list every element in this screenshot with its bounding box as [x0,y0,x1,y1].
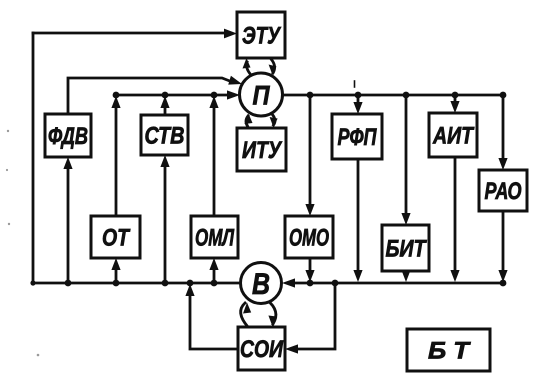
wire drop to RFP [357,95,360,104]
wire bus into P left [116,94,229,97]
wire OML feed from bus [213,267,216,283]
arrowhead FDV line into P [228,76,243,89]
svg-text:РФП: РФП [338,124,378,151]
wire drop to BIT [405,95,408,215]
speck left margin 2 [6,169,8,171]
arrowhead OT top at bus [111,96,120,108]
arrowhead bus into P [227,90,240,99]
svg-text:АИТ: АИТ [432,123,475,150]
svg-text:Б Т: Б Т [428,338,471,365]
arrowhead into OML bottom [209,258,218,270]
wire FDV feed from bus [67,166,70,283]
wire STV feed from bus [164,164,167,283]
box STV [141,115,188,155]
box BT [407,329,490,371]
svg-text:ОМЛ: ОМЛ [195,225,234,252]
junction dot OML top bus [211,92,218,99]
wire arc P to ETU left [247,62,252,75]
wire OT top to bus [115,104,118,216]
arrowhead into FDV bottom [63,157,72,169]
svg-text:СТВ: СТВ [145,123,185,150]
speck left margin 3 [8,223,10,225]
arrowhead SOI return at bus [185,284,194,296]
box AIT [429,113,477,157]
box ITU [237,128,286,171]
wire STV top to bus [164,104,167,115]
arrowhead RAO at bottom bus [498,270,507,282]
arrowhead arc into V bottom [243,303,251,314]
arrowhead into AIT top [450,101,459,113]
box BIT [382,225,429,271]
arrowhead into SOI right [285,344,298,353]
arrowhead arc into SOI top [268,316,276,327]
junction dot RAO corner top bus [500,92,507,99]
arrowhead into OMO top [305,204,314,216]
wire bottom bus left of V [33,282,241,285]
svg-text:СОИ: СОИ [240,336,284,363]
wire left feedback vertical [32,33,35,283]
wire OML top to bus [213,104,216,216]
arrowhead into STV bottom [160,155,169,167]
wire top bus right of P [283,94,503,97]
arrowhead into OT bottom [111,258,120,270]
wire drop to OMO [309,95,312,206]
junction dot OMO bottom bus [307,280,314,287]
wire SOI return to bus [190,294,238,349]
box SOI [238,327,285,370]
arrowhead arc into ITU top [270,117,278,128]
wire drop to RAO [502,95,505,160]
wire BIT bottom to bus [405,271,408,272]
wire arc SOI to V left [241,303,248,327]
arrowhead STV top at bus [160,96,169,108]
arrowhead arc into P bottom [245,114,253,125]
wire left feedback horizontal to ETU [33,32,226,35]
svg-text:ИТУ: ИТУ [242,137,282,164]
wire OMO bottom to bus [309,258,312,272]
junction dot OMO top bus [307,92,314,99]
junction dot STV bottom bus [162,280,169,287]
junction dot FDV bottom bus [65,280,72,287]
svg-text:ФДВ: ФДВ [48,123,88,150]
arrowhead OML top at bus [209,96,218,108]
svg-text:РАО: РАО [485,178,522,205]
circle P [240,73,283,116]
junction dot OT top bus [113,92,120,99]
wire OT feed from bus [115,267,118,283]
wire RFP bottom to bus [357,159,360,272]
wire drop to AIT [454,95,457,103]
wire arc ITU to P left [246,116,248,127]
junction dot RAO end bottom bus [500,280,507,287]
arrowhead into ETU left [224,29,237,39]
svg-text:ЭТУ: ЭТУ [242,23,281,50]
junction dot SOI return bottom bus [187,280,194,287]
circle V [241,263,282,304]
arrowhead OMO at bottom bus [305,270,314,282]
arrowhead into RFP top [353,102,362,114]
wire bus to SOI input [294,283,335,349]
arrowhead arc into ETU bottom [243,58,251,69]
wire RAO bottom to bus [502,211,505,272]
junction dot left line at bottom bus [30,280,35,285]
svg-text:БИТ: БИТ [386,236,428,263]
speck artifact above RFP junction [354,81,356,87]
arrowhead RFP at bottom bus [353,270,362,282]
junction dot SOI feed bottom bus [332,280,339,287]
junction dot OML bottom bus [211,280,218,287]
arrowhead AIT at bottom bus [450,270,459,282]
arrowhead into BIT top [401,213,410,225]
svg-text:ОТ: ОТ [102,225,131,252]
wire bottom bus right of V [293,282,503,285]
wire arc V to SOI right [267,300,276,324]
box OT [91,216,140,258]
arrowhead bottom bus into V [282,278,295,287]
arrowhead into RAO top [498,158,507,170]
arrowhead BIT at bottom bus [401,270,410,282]
box OMO [285,216,333,258]
box RAO [479,170,527,211]
box OML [191,216,238,258]
junction dot RFP top bus [355,92,362,99]
svg-text:ОМО: ОМО [289,225,329,252]
arrowhead arc into P top [269,65,277,76]
box ETU [237,12,285,58]
junction dot STV top bus [162,92,169,99]
junction dot AIT top bus [452,92,459,99]
wire arc ETU to P right [271,59,275,73]
junction dot BIT top bus [403,92,410,99]
svg-text:П: П [253,81,271,111]
box RFP [332,114,382,159]
wire FDV output to P [68,78,231,114]
junction dot OT bottom bus [113,280,120,287]
speck left margin 1 [7,130,9,132]
box FDV [45,114,91,157]
svg-text:В: В [252,268,270,301]
speck bottom left [37,354,40,357]
wire arc P to ITU right [272,114,275,125]
wire AIT bottom to bus [454,157,457,272]
